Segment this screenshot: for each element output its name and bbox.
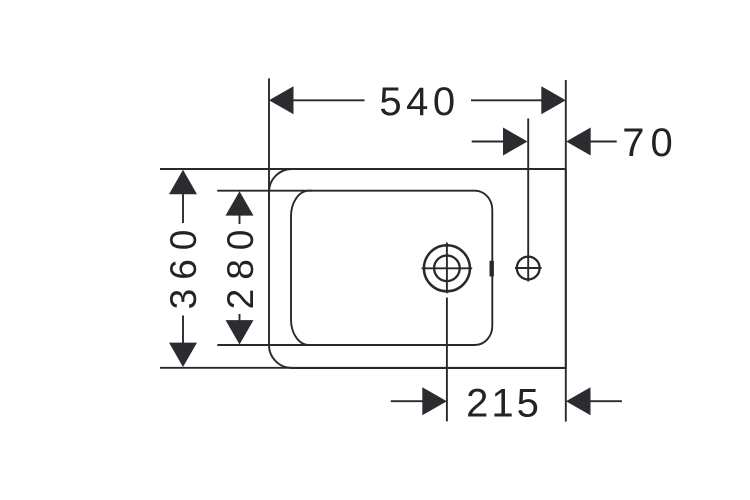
extension line left edge (540 dim): [268, 78, 270, 200]
drain centerline upper: [446, 243, 448, 294]
faucet hole crosshair horizontal: [515, 267, 542, 269]
svg-text:70: 70: [622, 121, 679, 165]
drain outer circle: [424, 245, 470, 291]
extension line top (360 upper / outer top edge): [160, 168, 566, 170]
dimension line 70 tail left: [472, 141, 504, 143]
dimension line 360 lower segment: [182, 316, 184, 345]
extension line 280 lower: [217, 344, 312, 346]
extension line right edge (540/70/215 dims): [565, 80, 567, 422]
drain crosshair horizontal: [422, 267, 473, 269]
overflow mark: [490, 261, 494, 277]
arrowhead 540 right: [541, 86, 566, 114]
dimension line 280 upper segment: [239, 215, 241, 225]
svg-text:360: 360: [163, 221, 204, 310]
extension line bottom (360 lower / outer bottom edge): [160, 367, 566, 369]
arrowhead 215 left (points right): [422, 387, 447, 415]
drain inner circle: [434, 255, 460, 281]
arrowhead 360 bottom: [169, 343, 197, 367]
arrowhead 70 inner (points right): [503, 128, 528, 156]
dimension line 215 tail left: [391, 400, 424, 402]
dimension line 540 right segment: [471, 99, 543, 101]
drain centerline lower: [446, 298, 448, 422]
svg-text:540: 540: [379, 80, 459, 124]
dimension line 215 tail right: [590, 400, 622, 402]
arrowhead 215 right (points left): [566, 387, 591, 415]
faucet hole centerline: [527, 119, 529, 282]
dimension line 540 left segment: [292, 99, 365, 101]
arrowhead 70 outer (points left): [566, 128, 591, 156]
outer rim outline: [269, 169, 566, 368]
extension line 280 upper: [217, 190, 312, 192]
arrowhead 280 bottom: [226, 320, 254, 344]
arrowhead 360 top: [169, 170, 197, 194]
faucet hole circle: [517, 257, 540, 280]
dimension line 360 upper segment: [182, 193, 184, 223]
svg-text:280: 280: [220, 221, 261, 310]
arrowhead 280 top: [226, 191, 254, 215]
dimension line 70 tail right: [591, 141, 617, 143]
svg-text:215: 215: [466, 382, 542, 426]
arrowhead 540 left: [269, 86, 294, 114]
inner basin outline: [291, 191, 492, 345]
dimension line 280 lower segment: [239, 314, 241, 322]
